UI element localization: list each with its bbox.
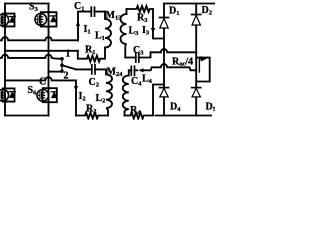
svg-text:L3: L3: [129, 26, 140, 38]
node dot 3: [60, 69, 64, 73]
resistor R3: [127, 6, 165, 39]
svg-text:D4: D4: [170, 102, 181, 114]
arrow I3 current arrow pointing down: [151, 28, 155, 34]
svg-text:R2: R2: [86, 104, 96, 116]
wire: rectifier leg D1-D4: [163, 4, 165, 116]
svg-text:L4: L4: [142, 74, 153, 86]
arrow I1 current arrow pointing up: [77, 27, 79, 30]
svg-text:R1: R1: [85, 45, 95, 57]
inductor L1: [105, 12, 111, 48]
diode D1: [160, 17, 169, 19]
wire: inverter leg A vertical: [4, 4, 6, 116]
svg-text:2: 2: [64, 71, 69, 82]
diode: S6 lower-right body diode: [51, 91, 57, 93]
svg-text:D5: D5: [206, 102, 216, 114]
capacitor C2: [76, 68, 106, 70]
wire: C3 return hop over D1-D4 leg to leg2: [161, 49, 196, 52]
wire: vertical joining node dots: [61, 59, 63, 71]
node dot 1: [60, 57, 64, 61]
svg-text:Rac/4: Rac/4: [172, 56, 193, 67]
wire: S3 upper-right body-diode branch loop: [41, 12, 57, 26]
wire: tank4 wire hop over D1-D4 leg to leg2: [143, 64, 196, 70]
wire: upper-left body-diode branch loop: [3, 14, 15, 27]
wire: S6 lower-right body-diode branch loop: [43, 88, 57, 102]
wire: rectifier top rail: [164, 3, 215, 5]
wire: leg A lower midpoint wire W3 with hop over leg B, down to I2 branch: [5, 77, 76, 115]
transistor S3 upper-right switch body: [35, 14, 47, 26]
svg-text:M24: M24: [107, 67, 124, 79]
svg-text:C3: C3: [133, 45, 144, 57]
svg-text:I2: I2: [79, 91, 86, 103]
svg-text:S6: S6: [28, 85, 38, 97]
wire: rectifier bottom rail: [156, 115, 212, 117]
arrow load current arrow: [199, 59, 201, 72]
diode D4: [160, 87, 169, 89]
svg-text:R4: R4: [130, 105, 141, 117]
wire: rectifier leg D2-D5: [195, 4, 197, 116]
transistor lower-left switch body: [0, 89, 9, 101]
wire: node wire from left edge hopping leg A and leg B: [0, 55, 62, 59]
wire: switch blade from dot 2 to C2 branch: [62, 65, 76, 69]
resistor R2: [76, 113, 108, 119]
resistor Rac/4 load box: [196, 58, 210, 82]
arrow I4 current arrow pointing left: [138, 68, 144, 72]
capacitor C4: [129, 69, 137, 71]
svg-text:C4: C4: [131, 76, 142, 88]
diode D5: [192, 87, 201, 89]
svg-text:M13: M13: [106, 10, 123, 22]
wire: leg A upper midpoint wire W1 with hop over leg B: [0, 37, 78, 40]
diode: lower-left body diode: [9, 91, 15, 93]
wire: tank1 feed wire at y=51 from leg A: [5, 50, 78, 52]
svg-text:I1: I1: [84, 24, 91, 36]
transistor upper-left switch body: [0, 14, 9, 26]
svg-text:L1: L1: [95, 31, 105, 43]
svg-text:C1: C1: [74, 1, 84, 13]
svg-text:R3: R3: [137, 13, 148, 25]
svg-text:D1: D1: [169, 6, 179, 18]
inductor L4: [123, 70, 129, 115]
resistor R1: [78, 48, 105, 62]
inductor L3: [121, 9, 127, 58]
resistor R4: [125, 85, 165, 119]
svg-text:I3: I3: [142, 25, 150, 37]
svg-text:L2: L2: [96, 93, 106, 105]
svg-text:C: C: [39, 77, 46, 88]
inductor L2: [106, 69, 112, 115]
wire: inverter top rail: [5, 3, 49, 5]
diode D2: [192, 14, 201, 16]
wire: lower-left body-diode branch loop: [3, 88, 15, 101]
transistor S6 lower-right switch body: [37, 90, 49, 102]
svg-text:D2: D2: [202, 5, 212, 17]
capacitor C1: [78, 12, 105, 41]
node dot 2: [60, 63, 64, 67]
wire: inverter bottom rail: [5, 115, 49, 117]
capacitor C3: [125, 52, 161, 57]
diode: S3 upper-right body diode: [50, 15, 56, 17]
wire: inverter leg B vertical: [48, 4, 50, 116]
svg-text:1: 1: [65, 49, 70, 60]
diode: upper-left body diode: [9, 16, 15, 18]
svg-text:C2: C2: [89, 77, 99, 89]
wire: stub into node dot 3: [49, 71, 62, 73]
arrow I2 current arrow pointing down: [75, 84, 77, 87]
